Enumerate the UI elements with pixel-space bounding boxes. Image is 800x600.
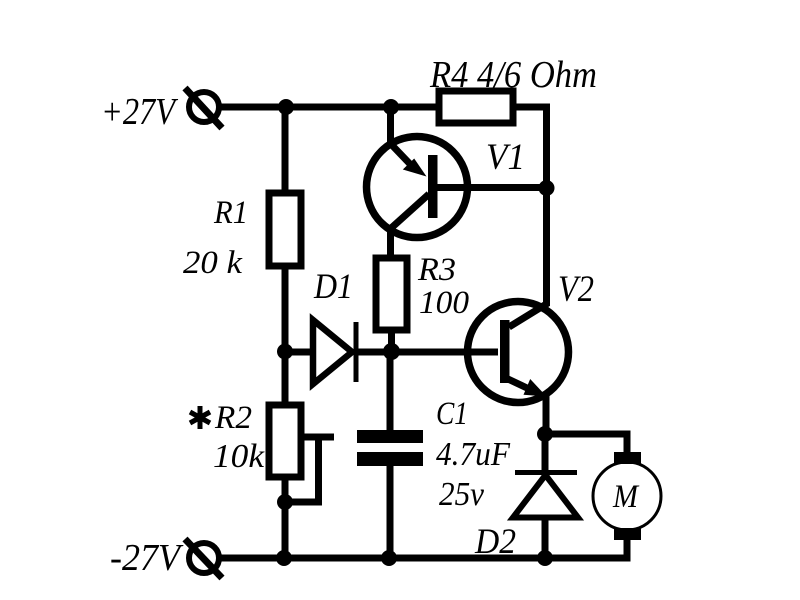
resistor R4 bbox=[439, 91, 513, 123]
diode D2 bbox=[513, 473, 578, 518]
wire top rail bbox=[218, 104, 439, 111]
node junction C1 / rail bbox=[381, 550, 397, 566]
wire V1 collector to R3 bbox=[387, 228, 394, 258]
svg-text:R3: R3 bbox=[417, 252, 456, 288]
wire R2 wiper arm bbox=[301, 434, 334, 441]
wire V1 emitter from top rail bbox=[387, 107, 394, 142]
wire C1 to rail bbox=[387, 466, 394, 558]
node junction R2 / rail bbox=[276, 550, 292, 566]
node junction D2 / rail bbox=[537, 550, 553, 566]
wire node A to C1 bbox=[387, 352, 394, 430]
wire V1 base lead bbox=[437, 184, 547, 191]
svg-text:C1: C1 bbox=[436, 396, 468, 432]
wire D2 anode to rail bbox=[542, 518, 549, 558]
wire R1 from top rail bbox=[282, 107, 289, 193]
wire V2 emitter down bbox=[543, 394, 550, 434]
svg-text:R4 4/6 Ohm: R4 4/6 Ohm bbox=[429, 54, 597, 96]
wire R1 to R2 bbox=[282, 266, 289, 405]
wire D1 cathode to V2 base bbox=[356, 349, 498, 356]
transistor V1 bbox=[367, 137, 468, 238]
node junction top rail / R1 bbox=[278, 99, 294, 115]
svg-text:-27V: -27V bbox=[110, 537, 184, 579]
terminal +27V bbox=[185, 88, 222, 128]
svg-text:R1: R1 bbox=[213, 195, 248, 231]
svg-text:25v: 25v bbox=[439, 476, 485, 513]
node junction V1 base / V2 collector bbox=[539, 180, 555, 196]
node A junction bbox=[383, 343, 400, 360]
wire R2 wiper tail bbox=[285, 437, 319, 502]
svg-text:100: 100 bbox=[419, 285, 470, 321]
resistor R3 bbox=[376, 258, 407, 330]
potentiometer R2 bbox=[269, 405, 301, 477]
svg-text:+27V: +27V bbox=[101, 91, 178, 133]
node junction top rail / V1 emitter bbox=[383, 99, 399, 115]
motor M bbox=[593, 452, 661, 540]
wire motor bottom to rail bbox=[545, 540, 627, 558]
svg-text:D1: D1 bbox=[313, 266, 353, 306]
wire R2 to bottom rail bbox=[282, 477, 289, 558]
wire node to D2 cathode bbox=[542, 434, 549, 473]
svg-text:V2: V2 bbox=[558, 269, 594, 310]
star symbol for R2 bbox=[190, 406, 210, 429]
svg-text:M: M bbox=[612, 479, 639, 515]
node junction R2 wiper / bottom lead bbox=[277, 494, 293, 510]
wire R3 to node A bbox=[388, 330, 395, 352]
wire node to motor top bbox=[545, 434, 627, 453]
wire node to D1 anode bbox=[285, 349, 314, 356]
svg-text:4.7uF: 4.7uF bbox=[436, 436, 511, 473]
capacitor C1 bbox=[357, 430, 423, 466]
wire right rail down to V2 collector bbox=[543, 188, 550, 306]
node junction left / D1 anode bbox=[277, 344, 293, 360]
svg-text:20 k: 20 k bbox=[183, 245, 243, 281]
wire R4 to right rail corner bbox=[513, 107, 547, 188]
terminal -27V bbox=[185, 539, 222, 578]
resistor R1 bbox=[269, 193, 301, 266]
svg-text:10k: 10k bbox=[213, 438, 265, 475]
node junction V2 emitter / motor / D2 bbox=[537, 426, 553, 442]
svg-text:V1: V1 bbox=[486, 137, 525, 178]
svg-text:R2: R2 bbox=[214, 400, 252, 436]
diode D1 bbox=[313, 320, 356, 384]
wire bottom rail bbox=[219, 555, 627, 562]
transistor V2 bbox=[468, 302, 569, 403]
